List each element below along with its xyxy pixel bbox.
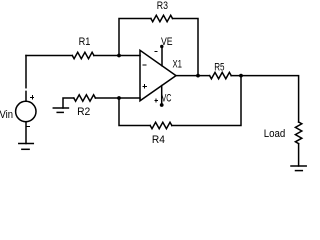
svg-text:Load: Load: [264, 128, 286, 140]
svg-text:R2: R2: [77, 106, 90, 118]
svg-text:R5: R5: [214, 61, 224, 73]
svg-text:R3: R3: [157, 0, 168, 12]
svg-text:R1: R1: [79, 36, 91, 48]
svg-text:R4: R4: [152, 134, 165, 146]
svg-text:X1: X1: [173, 59, 183, 71]
svg-text:VC: VC: [162, 93, 172, 105]
svg-text:Vin: Vin: [0, 109, 13, 121]
svg-text:VE: VE: [161, 36, 173, 48]
